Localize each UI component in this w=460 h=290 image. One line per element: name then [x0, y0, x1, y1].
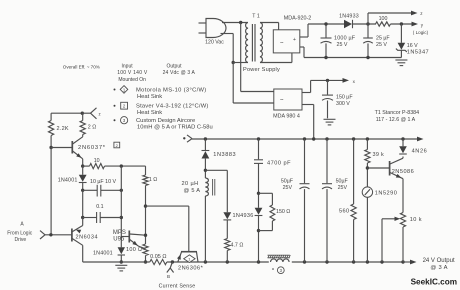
svg-text:39 k: 39 k [373, 152, 385, 158]
svg-text:2N5086: 2N5086 [392, 169, 415, 175]
svg-text:T1 Stancor P-8384: T1 Stancor P-8384 [375, 110, 420, 116]
svg-text:MPS: MPS [113, 230, 126, 236]
svg-text:1N3883: 1N3883 [213, 152, 236, 158]
svg-text:2N6037*: 2N6037* [78, 145, 106, 151]
svg-text:@ 3 A: @ 3 A [430, 265, 447, 271]
svg-text:2N6306*: 2N6306* [178, 266, 204, 272]
svg-text:SeekIC.com: SeekIC.com [411, 278, 457, 287]
svg-text:Input: Input [122, 63, 134, 69]
svg-text:Mounted On: Mounted On [118, 77, 146, 83]
svg-text:Custom Design Aircore: Custom Design Aircore [136, 118, 195, 124]
svg-text:z: z [99, 112, 101, 117]
svg-text:10 k: 10 k [410, 217, 422, 223]
svg-text:1N5290: 1N5290 [375, 191, 398, 197]
svg-text:25 V: 25 V [376, 42, 387, 48]
svg-text:1000 µF: 1000 µF [334, 35, 356, 41]
svg-text:Heat Sink: Heat Sink [137, 110, 162, 116]
svg-text:20 µH: 20 µH [182, 181, 199, 187]
svg-text:120 Vac: 120 Vac [205, 40, 224, 46]
svg-text:0.05 Ω: 0.05 Ω [150, 254, 166, 260]
svg-text:2N6034: 2N6034 [76, 234, 99, 240]
svg-text:Power Supply: Power Supply [243, 67, 280, 73]
svg-text:16 V: 16 V [407, 43, 418, 49]
svg-text:MDA 980 4: MDA 980 4 [273, 114, 300, 120]
svg-text:From Logic: From Logic [7, 231, 33, 237]
svg-text:Heat Sink: Heat Sink [137, 94, 162, 100]
svg-text:~: ~ [280, 98, 284, 104]
svg-text:+: + [293, 37, 296, 43]
svg-text:( Logic): ( Logic) [413, 30, 429, 35]
svg-text:50µF: 50µF [336, 178, 349, 184]
svg-text:25 µF: 25 µF [376, 35, 390, 41]
svg-text:1N4001: 1N4001 [58, 177, 78, 183]
svg-text:Output: Output [167, 63, 183, 69]
svg-text:2.2K: 2.2K [57, 126, 69, 132]
svg-text:Staver V4-3-192 (12°C/W): Staver V4-3-192 (12°C/W) [136, 104, 209, 110]
svg-text:300 V: 300 V [336, 101, 350, 107]
svg-text:4N26: 4N26 [412, 148, 428, 154]
svg-text:0.1: 0.1 [96, 204, 103, 210]
svg-text:100 Ω: 100 Ω [126, 247, 142, 253]
svg-text:560: 560 [339, 209, 350, 215]
svg-text:24 Vdc @ 3 A: 24 Vdc @ 3 A [163, 70, 196, 76]
svg-text:Overall Eff. ~ 70%: Overall Eff. ~ 70% [63, 65, 100, 70]
svg-text:Motorola MS-10 (3°C/W): Motorola MS-10 (3°C/W) [136, 88, 207, 94]
svg-text:MDA-920-2: MDA-920-2 [284, 15, 312, 21]
svg-text:10: 10 [94, 158, 100, 164]
svg-text:Current Sense: Current Sense [159, 284, 196, 290]
svg-text:1N4933: 1N4933 [339, 14, 359, 20]
svg-text:10 µF 10 V: 10 µF 10 V [90, 179, 116, 185]
svg-text:117 - 12.6 @ 1 A: 117 - 12.6 @ 1 A [376, 117, 416, 123]
svg-text:@ 5 A: @ 5 A [184, 188, 201, 194]
svg-text:150 µF: 150 µF [336, 94, 353, 100]
svg-text:100 V 140 V: 100 V 140 V [117, 70, 148, 76]
svg-text:25V: 25V [283, 185, 293, 191]
svg-text:50µF: 50µF [281, 178, 294, 184]
svg-text:25V: 25V [338, 185, 348, 191]
svg-text:1N5347: 1N5347 [407, 50, 429, 56]
svg-text:25 V: 25 V [337, 42, 348, 48]
svg-text:2 Ω: 2 Ω [88, 125, 96, 131]
svg-text:U95: U95 [113, 236, 125, 242]
svg-text:150 Ω: 150 Ω [276, 209, 290, 215]
svg-text:4700 pF: 4700 pF [267, 160, 291, 166]
svg-text:100: 100 [379, 16, 388, 22]
svg-text:4.7 Ω: 4.7 Ω [231, 243, 244, 249]
svg-text:1 Ω: 1 Ω [149, 177, 157, 183]
svg-text:1N4001: 1N4001 [93, 251, 113, 257]
svg-text:~: ~ [280, 41, 284, 47]
svg-text:1N4936: 1N4936 [233, 213, 254, 219]
svg-text:Drive: Drive [15, 237, 27, 243]
svg-text:B: B [167, 274, 170, 279]
svg-text:24 V Output: 24 V Output [423, 258, 455, 264]
svg-text:10mH @ 5 A or TRIAD C-58u: 10mH @ 5 A or TRIAD C-58u [137, 125, 213, 131]
svg-text:T 1: T 1 [252, 14, 260, 20]
